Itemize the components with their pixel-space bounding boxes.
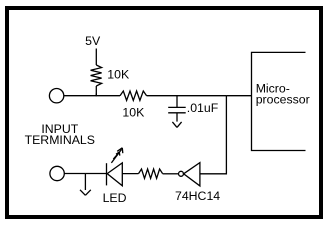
wire: R3 to U1 input bubble	[163, 173, 179, 175]
wire: J1 to node A	[64, 95, 97, 97]
wire: J2 to node D	[64, 173, 85, 175]
wire: LED to R3	[122, 173, 138, 175]
svg-text:.01uF: .01uF	[187, 101, 219, 115]
svg-text:LED: LED	[103, 191, 127, 205]
resistor R1	[91, 65, 102, 86]
node B (cap junction)	[176, 95, 178, 97]
wire: node B to node C	[177, 95, 226, 97]
svg-text:TERMINALS: TERMINALS	[25, 133, 95, 147]
svg-text:10K: 10K	[107, 67, 130, 81]
input terminal J2	[50, 166, 64, 180]
wire: node C down to U1 output	[200, 96, 226, 174]
LED D1	[107, 148, 123, 186]
svg-text:processor: processor	[256, 93, 310, 107]
node A (pullup junction)	[95, 94, 97, 96]
microprocessor U2	[252, 52, 306, 150]
wire: node D to LED	[85, 173, 106, 175]
capacitor C1	[168, 96, 186, 122]
svg-text:5V: 5V	[85, 34, 101, 48]
wire: R2 to node B	[147, 95, 177, 97]
ground (node D stem and arrow)	[80, 174, 91, 196]
ground (under C1)	[172, 122, 181, 128]
resistor R3	[139, 169, 163, 178]
svg-text:74HC14: 74HC14	[175, 189, 220, 203]
wire: 5V to R1	[95, 49, 97, 66]
resistor R2	[120, 91, 147, 100]
wire: R1 to node A	[95, 86, 97, 96]
inverter U1 (74HC14)	[179, 163, 200, 186]
input terminal J1	[49, 89, 63, 103]
svg-text:10K: 10K	[122, 106, 145, 120]
wire: node C to microprocessor	[226, 95, 251, 97]
wire: node A to R2	[96, 95, 120, 97]
